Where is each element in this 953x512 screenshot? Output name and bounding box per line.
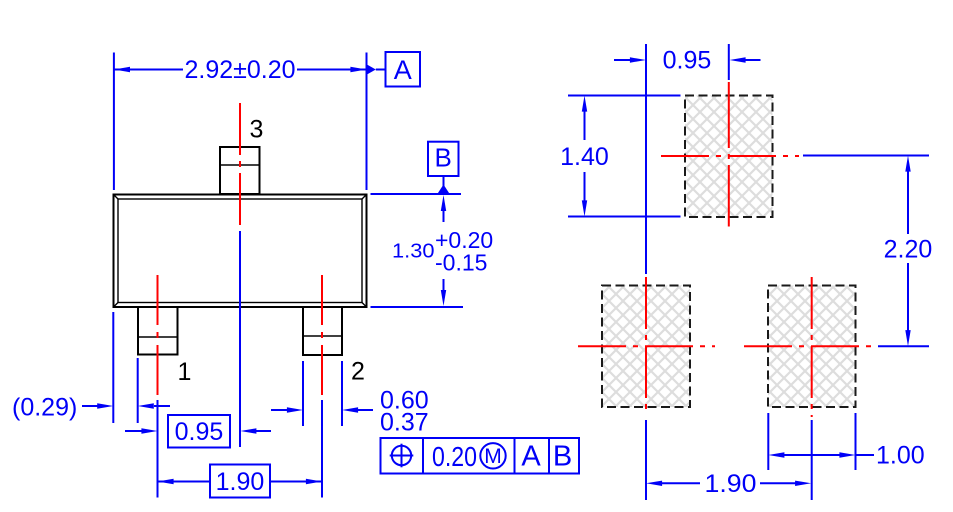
dimension 1.90 (boxed basic) xyxy=(158,465,323,498)
body outline (outer) xyxy=(114,195,367,308)
svg-text:M: M xyxy=(484,445,502,468)
svg-text:0.95: 0.95 xyxy=(175,418,224,446)
svg-text:1.00: 1.00 xyxy=(876,442,925,470)
svg-text:B: B xyxy=(435,143,452,173)
svg-text:0.95: 0.95 xyxy=(663,47,712,75)
pad 3 center lines (red) xyxy=(661,155,799,157)
svg-text:1.30: 1.30 xyxy=(392,240,435,263)
svg-text:-0.15: -0.15 xyxy=(435,250,487,276)
pad 2 (bottom right) xyxy=(768,286,856,408)
extension line body left (bottom, for 0.29) xyxy=(112,312,114,423)
svg-text:2.20: 2.20 xyxy=(884,236,933,264)
svg-text:2.92±0.20: 2.92±0.20 xyxy=(184,56,295,84)
extension line pad1 center vertical (blue, below) xyxy=(645,420,647,500)
svg-text:3: 3 xyxy=(250,116,264,144)
extension line body top right (for 1.30 / datum B) xyxy=(371,193,462,195)
pad 1 (bottom left) xyxy=(602,286,690,408)
extension line pad2 center (blue, below) xyxy=(811,420,813,500)
svg-text:B: B xyxy=(553,441,572,473)
extension line pad3 center horizontal (blue, right, for 2.20) xyxy=(803,155,929,157)
svg-text:A: A xyxy=(394,55,412,85)
datum A symbol xyxy=(367,52,421,87)
dimension 0.95 (boxed basic) xyxy=(125,415,271,448)
dimension 0.60 / 0.37 (lead width) xyxy=(271,387,429,437)
pin 1 (bottom left lead) xyxy=(138,307,178,355)
svg-text:0.20: 0.20 xyxy=(432,441,477,472)
svg-text:1.40: 1.40 xyxy=(560,143,609,171)
extension line body bottom right (for 1.30) xyxy=(371,306,464,308)
extension line pad1 center vertical (blue, above) xyxy=(645,44,647,274)
dimension 1.00 xyxy=(768,442,924,470)
dimension 2.20 xyxy=(884,156,933,347)
svg-text:2: 2 xyxy=(351,358,365,386)
pin 2 (bottom right lead) xyxy=(303,307,342,355)
extension line body left (top, for 2.92) xyxy=(113,53,115,191)
feature control frame: position 0.20 (M) A B xyxy=(381,438,580,474)
svg-text:1.90: 1.90 xyxy=(705,470,757,498)
pad 3 (top) xyxy=(685,96,773,218)
extension line pin1 center (blue) xyxy=(157,400,159,498)
pin 3 (top lead) xyxy=(220,147,260,194)
datum B symbol xyxy=(428,142,459,194)
svg-text:A: A xyxy=(521,441,541,473)
dimension 2.92±0.20 xyxy=(114,55,367,84)
dimension 0.95 (top) xyxy=(614,47,761,75)
extension line pin2 center (blue) xyxy=(321,400,323,498)
svg-text:1.90: 1.90 xyxy=(216,468,265,496)
body outline (inner bevel) xyxy=(114,195,367,308)
pin 2 plating line xyxy=(303,335,342,337)
extension line package center (blue) xyxy=(239,231,241,447)
pad 1 center lines (red) xyxy=(578,345,715,347)
position symbol xyxy=(390,444,414,468)
dimension 1.30 +0.20/-0.15 xyxy=(392,195,493,306)
extension line pin1 left edge xyxy=(137,358,139,423)
pin 3 plating line xyxy=(220,164,260,166)
svg-text:1: 1 xyxy=(178,358,192,386)
pin 1 plating line xyxy=(138,336,178,338)
dimension 1.40 xyxy=(560,96,609,217)
dimension (0.29) xyxy=(12,394,170,422)
extension line pads 1/2 center horizontal (blue, right, for 2.20) xyxy=(878,345,929,347)
extension line pin2 right edge xyxy=(341,361,343,426)
extension line pad3 center (blue, above) xyxy=(728,44,730,80)
center line pin 1 (red) xyxy=(157,275,159,397)
svg-text:(0.29): (0.29) xyxy=(12,394,77,422)
center line pin 3 (red) xyxy=(239,103,241,228)
center line pin 2 (red) xyxy=(321,275,323,397)
extension line body right (top, for 2.92) xyxy=(366,53,368,191)
svg-text:0.37: 0.37 xyxy=(380,409,429,437)
dimension 1.90 (right view) xyxy=(646,470,811,498)
extension lines for 1.40 (pad3 top/bottom) xyxy=(568,95,681,97)
extension lines for 1.00 (pad2 left/right edges) xyxy=(767,413,769,470)
extension line pin2 left edge xyxy=(302,361,304,426)
pad 2 center lines (red) xyxy=(744,345,872,347)
